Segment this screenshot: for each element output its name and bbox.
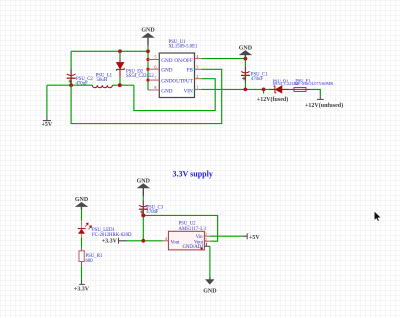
- svg-text:ON/OFF: ON/OFF: [174, 58, 193, 64]
- svg-text:+5V: +5V: [42, 122, 53, 128]
- capacitor C1: [241, 66, 250, 82]
- svg-text:GND: GND: [137, 178, 151, 184]
- resistor R1: [79, 238, 84, 267]
- ground GND5 (above LED1): [75, 197, 89, 209]
- svg-text:XL1509-5.0E1: XL1509-5.0E1: [169, 44, 199, 49]
- wire to +12V(unfused): [312, 89, 321, 96]
- wire Vin to +5V: [210, 235, 243, 237]
- pin 3 Vin (right top): [196, 231, 211, 239]
- pin 8 GND: [148, 85, 173, 94]
- junction at GND branch: [146, 49, 150, 53]
- svg-text:7: 7: [154, 75, 156, 80]
- junction 3.3V net: [141, 239, 145, 243]
- power symbol +5V: [42, 115, 53, 128]
- fuse F1: [288, 88, 312, 92]
- pin 3 FB: [186, 65, 201, 74]
- mouse cursor: [374, 211, 381, 221]
- svg-text:+5V: +5V: [249, 235, 260, 241]
- junction D2 bottom on rail: [118, 83, 122, 87]
- node +12V(fused): [257, 88, 288, 103]
- svg-text:1: 1: [196, 85, 198, 90]
- junction C3 bottom: [141, 213, 145, 217]
- LED LED1: [78, 221, 92, 238]
- svg-text:680: 680: [86, 259, 94, 264]
- svg-text:GND: GND: [161, 89, 172, 95]
- svg-text:3: 3: [205, 231, 207, 236]
- capacitor C2: [67, 69, 76, 84]
- diode D2: [116, 51, 124, 85]
- svg-text:3.3V supply: 3.3V supply: [173, 169, 213, 178]
- pin 6 GND: [148, 64, 173, 73]
- pin 2 Vout (right): [194, 237, 210, 245]
- inductor L1: [92, 85, 112, 88]
- junction D2 top: [118, 49, 122, 53]
- svg-text:470uF: 470uF: [251, 77, 264, 82]
- wire +3.3V to Vout pin4: [119, 240, 127, 242]
- svg-text:3: 3: [196, 65, 198, 70]
- svg-text:8: 8: [154, 85, 156, 90]
- svg-text:GND: GND: [203, 288, 217, 294]
- power symbol +12V(unfused): [305, 99, 343, 109]
- pin 1 VIN: [184, 85, 202, 95]
- wire GND3 to C3: [142, 196, 144, 201]
- pin 4 Vout (left): [162, 236, 180, 246]
- ground GND1 (top, above U1): [141, 27, 155, 45]
- wire switch node to OUTPUT pin loop: [134, 79, 215, 111]
- wire 3.3V loop to Vout pin2: [143, 215, 217, 241]
- svg-text:GND: GND: [161, 79, 172, 85]
- node +5V (right): [247, 233, 260, 241]
- wire VIN line: [201, 88, 269, 90]
- svg-text:GND/ADJ: GND/ADJ: [182, 245, 203, 250]
- junction C1 bottom: [244, 88, 248, 92]
- svg-text:VIN: VIN: [184, 89, 193, 95]
- svg-text:Vout: Vout: [171, 240, 181, 245]
- svg-text:Vin: Vin: [196, 235, 204, 240]
- regulator U2 AMS1117 box: [168, 222, 206, 250]
- wire +5V output rail: [47, 84, 93, 86]
- svg-text:FB: FB: [186, 68, 193, 74]
- svg-text:OUTPUT: OUTPUT: [172, 79, 193, 85]
- pin 1 GND/ADJ (bottom): [182, 243, 209, 250]
- wire switch node rail: [112, 84, 133, 86]
- power symbol +3.3V (bottom): [74, 280, 90, 293]
- diode D1: [269, 86, 288, 93]
- svg-text:GND: GND: [161, 58, 172, 64]
- pin 7 GND: [148, 75, 173, 84]
- svg-text:2: 2: [205, 237, 207, 242]
- svg-text:5: 5: [154, 55, 156, 60]
- pin 2 OUTPUT: [172, 74, 201, 85]
- svg-text:FC-2012HRK-620D: FC-2012HRK-620D: [92, 233, 132, 238]
- svg-text:470nF: 470nF: [146, 210, 159, 215]
- pin 5 GND: [148, 55, 173, 64]
- ground GND2 (above C1): [239, 45, 253, 60]
- pin 4 ON/OFF: [174, 54, 201, 64]
- wire +5V drop to symbol: [46, 85, 48, 115]
- ground GND3 (above C3): [137, 178, 151, 196]
- svg-text:6: 6: [154, 64, 156, 69]
- svg-text:GND: GND: [141, 27, 155, 33]
- svg-text:2: 2: [196, 74, 198, 79]
- op-amp U1 XL1509 box: [159, 40, 198, 98]
- node +3.3V (label): [102, 238, 119, 245]
- wire GND horizontal branch to C2 top: [71, 50, 148, 52]
- svg-text:+3.3V: +3.3V: [102, 239, 118, 245]
- ground GND4 (below U2): [203, 278, 217, 295]
- wire GND/ADJ down: [209, 246, 211, 277]
- wire R1 to +3.3V: [81, 266, 83, 280]
- svg-text:+12V(fused): +12V(fused): [257, 96, 288, 103]
- svg-text:+12V(unfused): +12V(unfused): [305, 102, 343, 109]
- junction pin5: [146, 58, 149, 61]
- svg-text:56uH: 56uH: [97, 78, 108, 83]
- wire GND2 down to C1: [244, 59, 246, 67]
- wire C3 down: [142, 215, 144, 240]
- wire GND5 to LED: [81, 210, 83, 221]
- wire ON/OFF to GND: [201, 58, 245, 60]
- junction ON/OFF-GND: [244, 57, 248, 61]
- svg-text:MF-MSOL075/60MR: MF-MSOL075/60MR: [294, 81, 333, 86]
- svg-text:AMS1117-3.3: AMS1117-3.3: [179, 227, 207, 232]
- wire C2 top vertical: [70, 51, 72, 69]
- svg-text:GND: GND: [161, 68, 172, 74]
- wire GND vertical to U1 left pins: [147, 46, 149, 91]
- junction C2 bottom on rail: [69, 83, 73, 87]
- wire FB feedback loop: [71, 69, 222, 123]
- junction pin6: [146, 68, 149, 71]
- wire C1 bottom to VIN: [244, 83, 246, 90]
- svg-text:GND: GND: [239, 45, 253, 51]
- junction pin7: [146, 79, 149, 82]
- svg-text:SS54_C22452: SS54_C22452: [126, 74, 154, 79]
- capacitor C3: [139, 201, 148, 215]
- svg-text:+3.3V: +3.3V: [74, 287, 90, 293]
